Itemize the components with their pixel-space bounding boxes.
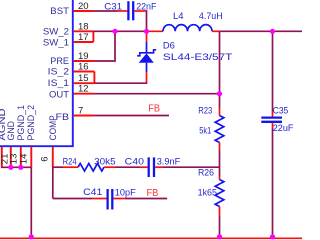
diode D6 schottky bar (137, 50, 156, 56)
svg-text:7: 7 (78, 106, 83, 117)
resistor R24 right lead (104, 166, 116, 168)
svg-text:15: 15 (78, 73, 89, 84)
wire PRE pin19 riser (93, 31, 115, 61)
svg-text:FB: FB (147, 188, 159, 199)
wire C41 net stub (125, 198, 167, 200)
svg-text:3.9nF: 3.9nF (157, 156, 181, 167)
svg-text:BST: BST (50, 6, 69, 17)
pin 17 SW_1 stub (74, 41, 94, 43)
junction node SW at pin19 riser (112, 29, 117, 34)
capacitor C35 top lead (272, 111, 274, 117)
wire R24 to C40 (116, 166, 140, 168)
capacitor C31 right lead (134, 10, 145, 12)
capacitor C35 bottom lead (272, 123, 274, 128)
svg-text:R24: R24 (63, 157, 77, 168)
diode D6 cathode top lead blue (146, 42, 148, 53)
svg-text:FB: FB (148, 104, 160, 115)
junction node ground at bottom bus (29, 234, 34, 239)
svg-text:12: 12 (78, 84, 89, 95)
pin 7 FB stub (74, 115, 94, 117)
capacitor C41 left lead (92, 198, 107, 200)
svg-text:30k5: 30k5 (94, 156, 116, 167)
wire ground bus under IC (2, 166, 32, 169)
wire R23 column upper (219, 31, 221, 107)
op-amp U1 IC body bottom edge (0, 145, 74, 147)
capacitor C41 plates (108, 189, 113, 210)
pin 19 PRE stub (74, 60, 94, 62)
svg-text:SW_2: SW_2 (43, 26, 69, 37)
svg-text:22uF: 22uF (273, 123, 294, 134)
connector joining pins 16 and 15 (93, 72, 95, 84)
svg-text:SL44-E3/57T: SL44-E3/57T (163, 52, 233, 63)
svg-text:18: 18 (78, 21, 89, 32)
svg-text:COMP: COMP (48, 115, 59, 140)
wire COMP to C41 (53, 198, 92, 200)
resistor R26 bottom lead (219, 207, 221, 216)
diode D6 anode lead blue (146, 63, 148, 72)
wire C40 to R23 column (163, 166, 220, 168)
wire SW net horizontal (93, 30, 146, 32)
capacitor C41 right lead (113, 198, 124, 200)
junction node GND pin13 (8, 165, 13, 170)
resistor R26 top lead (219, 176, 221, 180)
resistor R26 zigzag (215, 180, 224, 207)
junction node VOUT at C35 (270, 29, 275, 34)
inductor L4 left lead (147, 30, 164, 32)
wire COMP pin6 vertical (52, 167, 54, 199)
junction node C35 bottom (270, 234, 275, 239)
bottom power bus (0, 237, 302, 239)
svg-text:17: 17 (78, 32, 89, 43)
pin 16 IS_2 stub (74, 71, 95, 73)
svg-text:PGND_2: PGND_2 (26, 105, 37, 141)
svg-text:1k65: 1k65 (198, 188, 217, 199)
svg-text:C40: C40 (125, 156, 144, 167)
resistor R23 bottom lead (219, 143, 221, 151)
wire ground drop to bottom bus (30, 167, 32, 238)
svg-text:L4: L4 (173, 11, 184, 22)
pin 15 IS_1 stub (74, 82, 95, 84)
svg-text:20: 20 (78, 1, 89, 12)
wire C31 down to SW node (145, 11, 146, 30)
junction node OUT at R23 column (217, 91, 222, 96)
capacitor C40 left lead (140, 166, 148, 168)
svg-text:GND: GND (6, 121, 17, 141)
resistor R23 zigzag (215, 116, 224, 143)
wire BST pin20 to C31 (93, 10, 117, 12)
svg-text:10pF: 10pF (115, 188, 136, 199)
pin 13 GND stub (10, 147, 12, 167)
junction node SW at diode (144, 29, 149, 34)
svg-text:16: 16 (78, 62, 89, 73)
pin 6 COMP stub (52, 147, 54, 167)
capacitor C40 right lead (155, 166, 163, 168)
resistor R24 zigzag (78, 163, 104, 171)
svg-text:6: 6 (40, 157, 51, 162)
svg-text:D6: D6 (163, 41, 175, 52)
junction node R26 bottom (217, 234, 222, 239)
pin 20 BST stub (74, 10, 94, 12)
capacitor C40 plates (149, 157, 154, 177)
pin 21 AGND stub (1, 147, 3, 167)
op-amp U1 IC body right edge (72, 0, 74, 146)
wire C35 column upper (272, 31, 274, 111)
junction node GND pin14 (18, 165, 23, 170)
capacitor C31 plates (128, 1, 133, 20)
svg-text:R23: R23 (198, 105, 212, 116)
svg-text:IS_1: IS_1 (48, 78, 69, 89)
resistor R24 left lead (63, 166, 78, 168)
wire COMP to R24 (53, 166, 63, 168)
wire FB pin7 net stub (93, 115, 169, 117)
connector joining pins 18 and 17 (92, 31, 94, 42)
svg-text:C35: C35 (273, 105, 289, 116)
svg-text:PRE: PRE (50, 56, 69, 67)
svg-text:5k1: 5k1 (199, 126, 211, 137)
svg-text:19: 19 (78, 51, 89, 62)
inductor L4 right lead (212, 30, 220, 32)
svg-text:4.7uH: 4.7uH (199, 11, 223, 22)
capacitor C31 left lead (118, 10, 128, 12)
pin 18 SW_2 stub (74, 30, 94, 32)
wire OUT pin12 to R23 column (93, 93, 219, 95)
capacitor C35 plates (261, 118, 282, 122)
svg-text:C41: C41 (83, 187, 102, 198)
wire VOUT rail to right edge (220, 30, 302, 32)
wire R26 to ground bus (219, 216, 221, 238)
svg-text:OUT: OUT (49, 90, 69, 101)
diode D6 anode lead red (146, 72, 148, 82)
wire IS net to diode anode (94, 82, 146, 85)
pin 12 OUT stub (74, 93, 94, 95)
wire C35 to ground bus (272, 128, 274, 238)
wire R23 to R26 (219, 150, 221, 176)
svg-text:14: 14 (19, 154, 30, 165)
svg-text:R26: R26 (198, 167, 214, 178)
svg-text:C31: C31 (104, 1, 122, 12)
svg-text:SW_1: SW_1 (43, 37, 69, 48)
svg-text:IS_2: IS_2 (48, 67, 69, 78)
pin PGND_2 stub (30, 147, 32, 167)
resistor R23 top lead (219, 108, 221, 116)
diode D6 cathode lead (146, 31, 148, 42)
pin 14 PGND_1 stub (20, 147, 22, 167)
inductor L4 coil (163, 25, 212, 32)
diode D6 triangle (139, 53, 154, 62)
